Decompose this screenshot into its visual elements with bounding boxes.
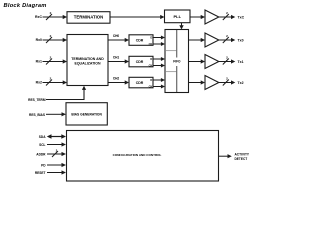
node CH2: [108, 77, 129, 85]
svg-text:CK: CK: [149, 64, 153, 68]
wire FIFO to Tx2 buffer: [189, 80, 206, 84]
svg-text:CH0: CH0: [113, 34, 120, 38]
PLL block: [165, 10, 191, 23]
output TxC: [219, 11, 245, 20]
svg-text:ADDR: ADDR: [36, 153, 46, 157]
svg-text:Tx1: Tx1: [238, 60, 244, 64]
output Tx2: [219, 76, 244, 85]
wire termination to PLL: [110, 15, 165, 19]
svg-text:Rx1: Rx1: [36, 60, 42, 64]
input SCL: [39, 142, 66, 147]
svg-text:CK: CK: [149, 85, 153, 89]
FIFO block: [165, 30, 189, 93]
svg-text:CK: CK: [149, 42, 153, 46]
svg-text:PD: PD: [41, 164, 46, 168]
wire CDR0 CK to FIFO: [153, 42, 165, 46]
wire CDR1 CK to FIFO: [153, 64, 165, 68]
svg-text:Tx0: Tx0: [238, 39, 244, 43]
input Rx0: [36, 34, 67, 43]
wire FIFO to Tx0 buffer: [189, 38, 206, 42]
svg-text:PLL: PLL: [174, 14, 182, 19]
svg-text:FIFO: FIFO: [173, 59, 181, 63]
input RESET: [35, 170, 66, 175]
wire PLL to FIFO clock: [179, 23, 183, 30]
node CH1: [108, 56, 129, 64]
svg-text:CH2: CH2: [113, 77, 120, 81]
svg-text:BIAS GENERATION: BIAS GENERATION: [71, 113, 102, 117]
wire CDR0 D to FIFO: [153, 36, 165, 40]
svg-text:CH1: CH1: [113, 56, 120, 60]
svg-text:Block Diagram: Block Diagram: [4, 3, 47, 9]
svg-text:RES_BIAS: RES_BIAS: [29, 113, 45, 117]
svg-text:CONFIGURATION AND CONTROL: CONFIGURATION AND CONTROL: [113, 153, 162, 157]
input Rx2: [36, 77, 67, 86]
configuration and control block: [67, 131, 219, 182]
termination block: [67, 12, 110, 24]
wire PLL to TxC buffer: [190, 15, 205, 19]
input RES_BIAS: [29, 112, 66, 117]
node CH0: [108, 34, 129, 42]
svg-text:TERMINATION: TERMINATION: [74, 15, 104, 20]
svg-text:CDR: CDR: [136, 81, 144, 85]
svg-text:RES_TERM: RES_TERM: [28, 98, 46, 102]
svg-text:Tx2: Tx2: [238, 81, 244, 85]
svg-text:RxC: RxC: [35, 15, 42, 19]
input PD: [41, 163, 66, 168]
wire CDR1 D to FIFO: [153, 57, 165, 61]
svg-text:CDR: CDR: [136, 38, 144, 42]
wire FIFO to Tx1 buffer: [189, 59, 206, 63]
buffer Tx0: [205, 33, 219, 47]
wire CDR2 D to FIFO: [153, 78, 165, 82]
output Tx1: [219, 55, 244, 64]
termination and equalization block: [67, 35, 108, 86]
input RxC: [35, 11, 67, 20]
svg-text:D: D: [150, 57, 152, 61]
CDR block ch0: [129, 35, 153, 46]
svg-text:TxC: TxC: [238, 16, 245, 20]
I/O SDA: [39, 134, 66, 139]
CDR block ch1: [129, 56, 153, 67]
svg-text:CDR: CDR: [136, 60, 144, 64]
input ADDR: [36, 148, 66, 157]
svg-text:Rx2: Rx2: [36, 81, 42, 85]
svg-text:EQUALIZATION: EQUALIZATION: [75, 62, 101, 66]
wire CDR2 CK to FIFO: [153, 85, 165, 89]
buffer Tx1: [205, 55, 219, 69]
svg-text:SDA: SDA: [39, 135, 46, 139]
svg-text:D: D: [150, 36, 152, 40]
output activity detect: [219, 153, 250, 161]
svg-text:Rx0: Rx0: [36, 38, 42, 42]
svg-text:DETECT: DETECT: [235, 157, 248, 161]
output Tx0: [219, 34, 244, 43]
svg-text:TERMINATION AND: TERMINATION AND: [71, 57, 104, 61]
svg-text:D: D: [150, 78, 152, 82]
svg-text:ACTIVITY: ACTIVITY: [235, 153, 250, 157]
input Rx1: [36, 56, 67, 65]
buffer Tx2: [205, 76, 219, 90]
input RES_TERM: [28, 86, 86, 102]
svg-text:RESET: RESET: [35, 171, 46, 175]
CDR block ch2: [129, 77, 153, 88]
bias generation block: [66, 103, 107, 125]
buffer TxC: [205, 10, 219, 24]
svg-text:SCL: SCL: [39, 143, 45, 147]
